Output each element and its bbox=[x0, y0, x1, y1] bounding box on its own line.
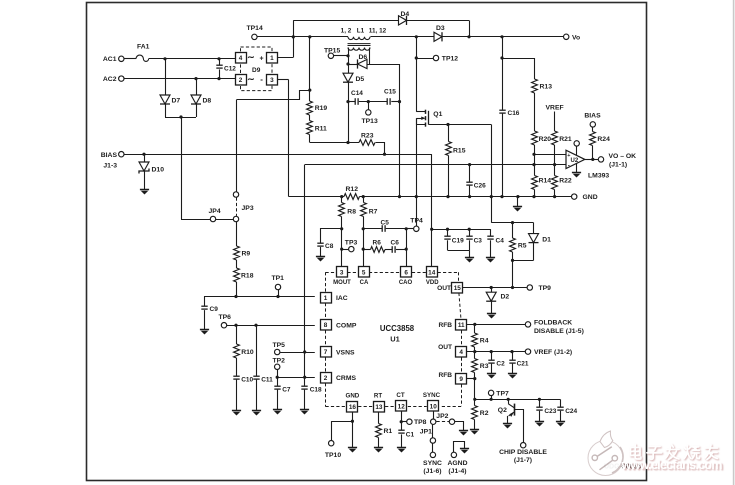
ground below C11 bbox=[252, 411, 261, 416]
junction bbox=[446, 123, 449, 126]
svg-text:VO – OK: VO – OK bbox=[609, 153, 637, 160]
inductor L1 primary winding bbox=[348, 37, 370, 40]
wire to R2 bbox=[474, 399, 476, 405]
ground below D10 bbox=[140, 190, 149, 195]
junction bbox=[473, 377, 476, 380]
capacitor C9 bbox=[201, 306, 207, 309]
resistor R21 bbox=[552, 131, 558, 145]
wire D7 to join bbox=[165, 104, 167, 117]
svg-text:C8: C8 bbox=[325, 243, 334, 250]
wire C5 to TP4 node bbox=[386, 228, 407, 230]
test point TP9 bbox=[527, 285, 532, 290]
wire C23 to ground bbox=[539, 411, 541, 422]
junction bbox=[179, 115, 182, 118]
wire pin10 down bbox=[433, 412, 435, 419]
junction bbox=[500, 56, 503, 59]
wire C21 to ground bbox=[512, 364, 514, 374]
svg-text:8: 8 bbox=[324, 322, 328, 329]
wire gate column down to rail bbox=[416, 118, 418, 196]
wire to C5 bbox=[363, 228, 382, 230]
wire TP8 stub bbox=[401, 421, 406, 423]
junction bbox=[516, 195, 519, 198]
wire R19-R11 bbox=[309, 115, 311, 121]
wire to R6 bbox=[363, 249, 370, 251]
jumper JP2 dashed link bbox=[437, 421, 450, 423]
U2 pullup circle bbox=[574, 141, 579, 146]
wire bridge pin1 out bbox=[277, 57, 293, 59]
wire Q2 base to CHIP DISABLE bbox=[515, 410, 524, 443]
ground below C4 bbox=[486, 258, 495, 263]
junction bbox=[446, 195, 449, 198]
junction bbox=[532, 153, 535, 156]
junction bbox=[473, 323, 476, 326]
resistor R2 bbox=[472, 406, 478, 420]
junction bbox=[346, 100, 349, 103]
wire TP12 stub bbox=[416, 58, 433, 60]
wire pin16 to ground bbox=[352, 421, 354, 447]
svg-text:U2: U2 bbox=[571, 158, 579, 164]
ground below C8 bbox=[316, 257, 325, 262]
junction bbox=[276, 376, 279, 379]
svg-text:TP10: TP10 bbox=[325, 452, 341, 459]
wire OUT 15 line bbox=[463, 287, 527, 289]
wire Vo rail down C16 bbox=[502, 37, 504, 110]
jumper JP3 top bbox=[233, 192, 238, 197]
wire to R10 bbox=[236, 325, 238, 344]
svg-text:TP8: TP8 bbox=[414, 419, 427, 426]
wire drain feed bbox=[416, 37, 418, 112]
wire R10 to C10 bbox=[236, 358, 238, 376]
wire join to ground bbox=[469, 250, 471, 258]
resistor R4 bbox=[472, 333, 478, 347]
wire TP4 stub bbox=[406, 228, 413, 230]
U1 pin 12 CT bbox=[396, 401, 407, 412]
capacitor C26 bbox=[466, 182, 472, 185]
wire to R14 bbox=[534, 165, 536, 176]
wire bridge neg down to gnd rail bbox=[288, 80, 290, 197]
svg-text:UCC3858: UCC3858 bbox=[380, 324, 415, 333]
svg-text:R11: R11 bbox=[315, 126, 327, 133]
svg-text:4: 4 bbox=[239, 55, 243, 62]
wire fuse to bridge pin4 bbox=[149, 58, 235, 60]
svg-text:TP12: TP12 bbox=[442, 56, 458, 63]
junction bbox=[398, 195, 401, 198]
L1 secondary winding bbox=[348, 48, 370, 51]
svg-text:FOLDBACK: FOLDBACK bbox=[534, 320, 572, 327]
ground below C3 bbox=[465, 258, 474, 263]
wire pin12 down bbox=[401, 412, 403, 431]
svg-text:D2: D2 bbox=[501, 294, 510, 301]
svg-text:GND: GND bbox=[346, 393, 360, 400]
wire clamp top rail bbox=[491, 222, 533, 224]
wire to TP13 bbox=[368, 102, 370, 110]
svg-text:12: 12 bbox=[398, 404, 406, 411]
wire L1 to D3 bbox=[371, 36, 435, 38]
svg-text:C7: C7 bbox=[282, 387, 291, 394]
wire ground rail bbox=[289, 196, 345, 198]
capacitor C7 bbox=[274, 386, 280, 389]
svg-text:CHIP DISABLE: CHIP DISABLE bbox=[499, 449, 547, 456]
wire JP1 to SYNC terminal bbox=[432, 443, 434, 452]
jumper JP2 right circle bbox=[449, 419, 454, 424]
test point TP3 bbox=[349, 246, 354, 251]
svg-text:R18: R18 bbox=[241, 273, 254, 280]
test point TP4 bbox=[414, 226, 419, 231]
wire AC2 to bridge pin2 bbox=[124, 78, 235, 80]
wire to C14 bbox=[348, 101, 355, 103]
junction bbox=[346, 62, 349, 65]
svg-text:R20: R20 bbox=[539, 136, 552, 143]
junction bbox=[383, 153, 386, 156]
svg-text:CA: CA bbox=[360, 280, 369, 286]
watermark logo circle bbox=[588, 431, 623, 476]
junction bbox=[340, 227, 343, 230]
char 发 bbox=[666, 445, 679, 460]
wire rail to TP4 bbox=[416, 197, 418, 226]
terminal Vo bbox=[564, 34, 569, 39]
char 烧 bbox=[684, 446, 699, 459]
wire VREF to R21 bbox=[554, 112, 556, 132]
wire COMP line bbox=[227, 325, 315, 327]
svg-text:C5: C5 bbox=[381, 219, 390, 226]
svg-text:C10: C10 bbox=[241, 377, 253, 384]
wire TP1 stub bbox=[278, 290, 280, 297]
wire BIAS rail bbox=[124, 154, 432, 156]
svg-text:-: - bbox=[260, 75, 263, 84]
wire to D2 bbox=[491, 288, 493, 293]
wire ground rail right part bbox=[360, 196, 572, 198]
test point TP5 bbox=[275, 349, 280, 354]
capacitor C16 bbox=[499, 110, 505, 113]
terminal SYNC J1-6 bbox=[430, 452, 435, 457]
svg-text:(J1-6): (J1-6) bbox=[423, 468, 441, 475]
wire to C11 bbox=[256, 325, 258, 376]
junction bbox=[303, 350, 306, 353]
junction bbox=[400, 420, 403, 423]
test point TP15 bbox=[328, 53, 333, 58]
ground below U2 bbox=[572, 173, 581, 178]
wire OUT 4 line bbox=[467, 351, 525, 353]
svg-text:∼: ∼ bbox=[247, 52, 255, 62]
svg-text:MOUT: MOUT bbox=[333, 280, 351, 286]
svg-text:BIAS: BIAS bbox=[584, 112, 601, 119]
svg-text:OUT: OUT bbox=[437, 285, 451, 292]
junction bbox=[405, 248, 408, 251]
svg-text:D6: D6 bbox=[359, 54, 368, 61]
test point TP13 bbox=[366, 110, 371, 115]
wire R24 to output bbox=[592, 146, 594, 160]
bridge D9 pin 1 bbox=[267, 53, 278, 64]
junction bbox=[468, 228, 471, 231]
ground below C21 bbox=[508, 374, 517, 379]
svg-text:C1: C1 bbox=[406, 431, 415, 438]
transistor Q2 bbox=[508, 399, 515, 423]
ground below Q2 bbox=[503, 424, 512, 429]
svg-text:R22: R22 bbox=[559, 178, 572, 185]
junction bbox=[415, 35, 418, 38]
diode D5 bbox=[343, 73, 353, 82]
fuse FA1 bbox=[136, 55, 149, 61]
test point TP1 bbox=[275, 284, 280, 289]
junction bbox=[234, 295, 237, 298]
capacitor C15 bbox=[387, 98, 390, 105]
ground below C1 bbox=[397, 448, 406, 453]
junction bbox=[507, 398, 510, 401]
capacitor C4 bbox=[487, 236, 493, 239]
junction bbox=[308, 89, 311, 92]
junction bbox=[217, 57, 220, 60]
svg-text:11: 11 bbox=[458, 322, 465, 329]
wire to R15 bbox=[448, 125, 450, 142]
wire vref rail vertical bbox=[304, 165, 306, 386]
svg-text:-: - bbox=[568, 162, 570, 169]
wire IAC line bbox=[204, 296, 315, 298]
wire TP7 stub bbox=[491, 396, 493, 400]
wire C18 to ground bbox=[304, 390, 306, 410]
wire D5 to R23 line bbox=[348, 82, 350, 142]
wire C24 to ground bbox=[560, 411, 562, 422]
svg-text:3: 3 bbox=[340, 269, 344, 276]
U1 pin 14 VDD bbox=[427, 267, 438, 278]
junction bbox=[500, 35, 503, 38]
wire JP3 to R9 bbox=[236, 222, 238, 246]
svg-text:RFB: RFB bbox=[438, 322, 452, 329]
junction bbox=[532, 195, 535, 198]
ground below C2 bbox=[487, 374, 496, 379]
terminal GND bbox=[572, 194, 577, 199]
junction bbox=[398, 100, 401, 103]
junction bbox=[468, 163, 471, 166]
svg-text:RT: RT bbox=[374, 393, 382, 400]
svg-text:TP3: TP3 bbox=[345, 240, 358, 247]
terminal VREF J1-2 bbox=[525, 349, 530, 354]
wire R21 down bbox=[554, 145, 556, 165]
wire top rail to D4 bbox=[293, 20, 398, 22]
junction bbox=[500, 195, 503, 198]
diode D6 bbox=[358, 59, 368, 68]
terminal BIAS right bbox=[590, 122, 595, 127]
svg-text:R13: R13 bbox=[540, 84, 553, 91]
resistor R10 bbox=[234, 344, 240, 358]
wire rail to R7 bbox=[363, 197, 365, 203]
svg-text:D7: D7 bbox=[172, 98, 181, 105]
svg-text:Vo: Vo bbox=[572, 34, 580, 41]
wire U2 to ground bbox=[576, 164, 578, 172]
svg-text:C4: C4 bbox=[496, 237, 505, 244]
svg-text:R23: R23 bbox=[361, 132, 374, 139]
wire to C21 bbox=[512, 352, 514, 360]
svg-text:C14: C14 bbox=[351, 90, 363, 97]
wire down to pin6 bbox=[406, 229, 408, 267]
wire bridge pin3 out bbox=[277, 79, 288, 81]
svg-text:R15: R15 bbox=[453, 148, 466, 155]
svg-text:JP4: JP4 bbox=[209, 208, 221, 215]
svg-text:OUT: OUT bbox=[438, 344, 452, 351]
svg-text:3: 3 bbox=[270, 77, 274, 84]
wire R7 to pin5 bbox=[363, 217, 365, 267]
wire to JP4 bbox=[181, 219, 210, 221]
junction bbox=[468, 195, 471, 198]
wire U2 output bbox=[585, 159, 598, 161]
svg-text:C11: C11 bbox=[261, 377, 273, 384]
wire D6 anode rail bbox=[367, 64, 400, 66]
wire C14 to C15 bbox=[359, 101, 388, 103]
resistor R5 bbox=[510, 238, 516, 252]
wire corner down to Vo rail bbox=[469, 20, 471, 36]
junction bbox=[473, 398, 476, 401]
resistor R11 bbox=[307, 121, 313, 135]
op-amp U2 comparator bbox=[566, 150, 585, 168]
wire corner to C24 bbox=[560, 399, 562, 407]
wire source down to clamp rail bbox=[491, 125, 493, 223]
wire to C8 bbox=[321, 229, 342, 244]
bridge D9 pin 4 bbox=[236, 53, 247, 64]
svg-text:R7: R7 bbox=[369, 209, 378, 216]
svg-text:15: 15 bbox=[454, 285, 462, 292]
svg-text:TP4: TP4 bbox=[410, 218, 423, 225]
wire to D1 bbox=[533, 223, 535, 234]
jumper JP1 circle bbox=[430, 438, 435, 443]
svg-text:R4: R4 bbox=[480, 338, 489, 345]
resistor R9 bbox=[234, 246, 240, 260]
wire to R22 bbox=[554, 165, 556, 176]
watermark url text bbox=[622, 458, 722, 472]
svg-text:RFB: RFB bbox=[438, 372, 452, 379]
resistor R12 bbox=[344, 194, 360, 200]
wire D6 rail down to gnd rail bbox=[399, 64, 401, 197]
wire to D6 bar bbox=[348, 64, 358, 66]
junction bbox=[510, 350, 513, 353]
IC U1 UCC3858 dashed outline bbox=[326, 272, 337, 274]
svg-text:C24: C24 bbox=[565, 408, 577, 415]
svg-text:C21: C21 bbox=[517, 361, 529, 368]
wire TP3 stub bbox=[342, 249, 349, 251]
wire R1 to ground bbox=[378, 438, 380, 448]
test point TP7 bbox=[488, 390, 493, 395]
wire R22 to gnd rail bbox=[554, 190, 556, 197]
wire C3 down bbox=[469, 240, 471, 250]
svg-text:DISABLE (J1-5): DISABLE (J1-5) bbox=[534, 328, 584, 335]
svg-text:TP13: TP13 bbox=[362, 118, 378, 125]
capacitor C12 bbox=[216, 65, 222, 68]
wire R3 down bbox=[474, 373, 476, 400]
ground on rail bbox=[513, 207, 522, 212]
wire to R4 bbox=[474, 324, 476, 333]
svg-text:TP1: TP1 bbox=[272, 275, 285, 282]
U1 pin 7 VSNS bbox=[321, 347, 332, 358]
svg-text:1, 2: 1, 2 bbox=[341, 27, 352, 34]
wire D3 to Vo bbox=[442, 36, 563, 38]
svg-text:R10: R10 bbox=[241, 349, 254, 356]
junction bbox=[217, 77, 220, 80]
junction bbox=[362, 248, 365, 251]
wire R13 top bbox=[534, 58, 536, 79]
capacitor C23 bbox=[536, 407, 542, 410]
test point TP12 bbox=[433, 55, 438, 60]
svg-text:R3: R3 bbox=[480, 363, 489, 370]
svg-text:R1: R1 bbox=[384, 428, 393, 435]
wire D10 to ground bbox=[144, 171, 146, 189]
U1 pin 5 CA bbox=[359, 267, 370, 278]
wire TP15 bbox=[334, 55, 348, 57]
svg-text:TP6: TP6 bbox=[219, 314, 232, 321]
wire jog to JP3 column bbox=[237, 91, 310, 100]
capacitor C14 bbox=[355, 98, 358, 105]
wire R14 to gnd rail bbox=[534, 190, 536, 197]
wire R18 down to IAC line bbox=[236, 282, 238, 297]
junction bbox=[276, 295, 279, 298]
wire TP7 line bbox=[475, 399, 560, 401]
wire VDD cap rail bbox=[432, 229, 491, 231]
wire JP2 to ground bbox=[455, 422, 464, 431]
wire C8 to ground bbox=[320, 247, 322, 257]
junction bbox=[340, 195, 343, 198]
junction bbox=[511, 221, 514, 224]
resistor R15 bbox=[446, 142, 452, 156]
terminal FOLDBACK DISABLE bbox=[525, 322, 530, 327]
wire circle to U2 bbox=[576, 146, 578, 155]
wire C4 to ground bbox=[490, 240, 492, 257]
junction bbox=[511, 286, 514, 289]
svg-text:+: + bbox=[567, 153, 570, 159]
svg-text:R14: R14 bbox=[539, 178, 552, 185]
svg-text:CT: CT bbox=[396, 392, 404, 399]
wire D2 to ground bbox=[491, 301, 493, 313]
svg-text:VSNS: VSNS bbox=[336, 349, 355, 356]
junction bbox=[473, 350, 476, 353]
svg-text:C19: C19 bbox=[452, 237, 464, 244]
wire C7 to ground bbox=[277, 390, 279, 410]
ground below pin16 bbox=[348, 448, 357, 453]
svg-text:D3: D3 bbox=[436, 25, 445, 32]
resistor R23 bbox=[359, 140, 375, 146]
wire L1 sec right down to D6 bbox=[369, 48, 371, 65]
svg-text:C26: C26 bbox=[474, 183, 486, 190]
wire vertical at bridge output bbox=[293, 20, 295, 57]
capacitor C5 bbox=[382, 225, 385, 232]
svg-text:13: 13 bbox=[375, 404, 383, 411]
wire clamp to OUT line bbox=[512, 260, 514, 287]
wire to C23 bbox=[539, 399, 541, 407]
svg-text:∼: ∼ bbox=[247, 74, 255, 84]
wire rail to R8 bbox=[341, 197, 343, 203]
wire pin13 to R1 bbox=[378, 412, 380, 424]
junction bbox=[234, 324, 237, 327]
svg-text:1: 1 bbox=[270, 55, 274, 62]
U1 pin 10 SYNC bbox=[428, 401, 439, 412]
U1 pin 1 IAC bbox=[321, 293, 332, 304]
test point TP10 bbox=[329, 441, 334, 446]
wire C11 to ground bbox=[256, 380, 258, 411]
char 子 bbox=[647, 447, 662, 460]
capacitor C8 bbox=[317, 243, 323, 246]
svg-text:R6: R6 bbox=[373, 239, 382, 246]
svg-text:9: 9 bbox=[459, 376, 463, 383]
bridge D9 pin 3 bbox=[267, 75, 278, 86]
svg-text:11, 12: 11, 12 bbox=[369, 27, 387, 34]
ground for JP2 bbox=[459, 431, 468, 436]
junction bbox=[303, 376, 306, 379]
svg-text:JP2: JP2 bbox=[436, 413, 448, 420]
jumper JP3 dashed link bbox=[236, 198, 238, 216]
ground below C10 bbox=[232, 411, 241, 416]
diode D8 bbox=[191, 95, 201, 104]
ground below C23 bbox=[535, 422, 544, 427]
jumper JP4 bbox=[210, 216, 215, 221]
wire R9-R18 bbox=[236, 260, 238, 268]
wire R13 to R20 bbox=[534, 93, 536, 131]
resistor R6 bbox=[371, 247, 385, 253]
